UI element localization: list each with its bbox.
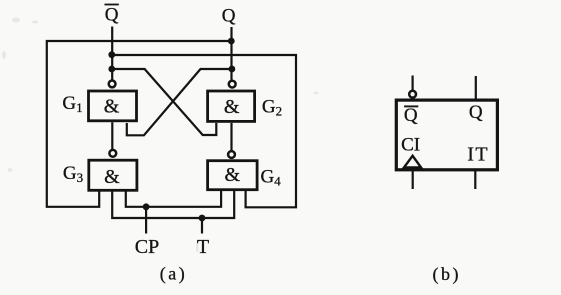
svg-text:T: T: [197, 236, 209, 258]
svg-text:G1: G1: [62, 93, 82, 115]
wire CP rail (G3 right input to G4 left input): [126, 190, 221, 207]
wire Q-bar feedback (second line, right edge, bottom-right rail to G4 right input): [112, 55, 296, 207]
node T junction dot: [199, 215, 206, 222]
svg-text:CI: CI: [401, 135, 420, 156]
svg-text:&: &: [104, 166, 120, 188]
wire CP stub: [145, 207, 147, 234]
gate G2 box: [208, 91, 255, 121]
svg-text:G4: G4: [261, 166, 282, 188]
gate G1 output bubble: [109, 81, 116, 88]
faint scan smudges (background artifacts): [2, 18, 319, 253]
wire cross-couple from Q-bar to G2 input: [112, 69, 217, 135]
svg-text:&: &: [225, 164, 241, 186]
wire Q-bar output lead (b): [412, 76, 414, 91]
wire Q-bar vertical: [111, 27, 113, 81]
svg-text:&: &: [104, 96, 120, 118]
gate G4 output bubble: [228, 151, 235, 158]
node CP junction dot: [143, 203, 150, 210]
wire T rail (G3 middle input to G4 middle input): [112, 190, 234, 218]
wire G1 input from G3 output: [111, 122, 113, 149]
dynamic edge triangle on CI input (b): [404, 156, 421, 168]
wire CI input lead (b): [412, 171, 414, 189]
wire T stub: [201, 218, 203, 234]
node junction dot on Q-bar at cross wire: [108, 66, 115, 73]
gate G4 box: [208, 161, 258, 190]
wire cross-couple from Q to G1 input: [127, 69, 232, 135]
gate G3 output bubble: [109, 150, 116, 157]
node junction dot on Q-bar at second line: [108, 51, 115, 58]
wire Q feedback (top line, left edge, bottom-left rail to G3 left input): [47, 41, 232, 207]
svg-text:(a): (a): [160, 264, 187, 285]
wire Q vertical: [230, 27, 232, 80]
gate G2 output bubble: [229, 81, 236, 88]
svg-text:(b): (b): [433, 264, 462, 285]
wire G2 input from G4 output: [230, 123, 232, 151]
svg-text:Q: Q: [105, 4, 119, 25]
gate G1 box: [89, 91, 137, 121]
svg-text:IT: IT: [467, 143, 489, 165]
bubble on Q-bar output (b): [409, 91, 416, 98]
svg-text:&: &: [224, 96, 240, 118]
svg-text:Q: Q: [404, 105, 418, 126]
svg-text:G2: G2: [262, 96, 282, 118]
svg-text:CP: CP: [135, 236, 159, 258]
svg-text:Q: Q: [222, 5, 236, 26]
node junction dot on Q at cross wire: [229, 66, 236, 73]
node junction dot on Q at top line: [228, 38, 235, 45]
wire IT input lead (b): [474, 171, 476, 189]
wire Q output lead (b): [475, 76, 477, 100]
svg-text:G3: G3: [63, 163, 83, 185]
flip-flop block box (b): [396, 100, 497, 170]
gate G3 box: [89, 160, 137, 190]
svg-text:Q: Q: [469, 102, 483, 123]
